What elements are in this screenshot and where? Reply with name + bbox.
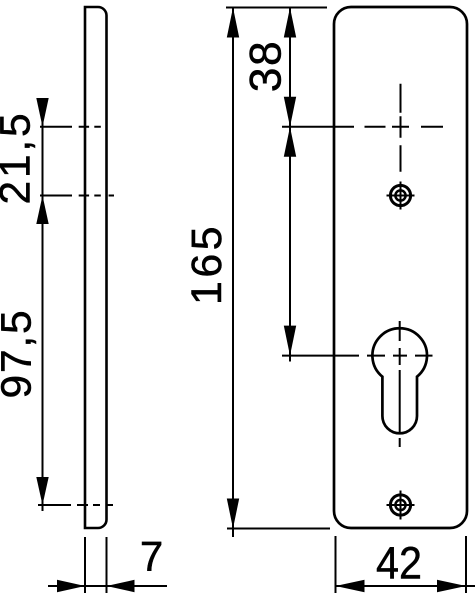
arrow down at cylinder centerline bbox=[284, 326, 296, 356]
witness line top screw bbox=[40, 195, 72, 197]
svg-text:21,5: 21,5 bbox=[0, 111, 40, 205]
witness line bottom screw bbox=[38, 504, 71, 506]
dimension line 38 bbox=[289, 8, 291, 127]
keyhole centerline vertical bbox=[399, 321, 401, 447]
top screw centerline (side view) bbox=[79, 195, 114, 197]
top screw symbol bbox=[387, 182, 415, 210]
arrow up to 97,5 top bbox=[36, 196, 48, 225]
dimension line handle to cylinder bbox=[289, 127, 291, 362]
handle centerline vertical bbox=[400, 84, 402, 172]
arrow down to 38 bottom bbox=[284, 97, 296, 127]
witness line 165 bottom bbox=[227, 528, 330, 530]
keyhole euro profile cutout bbox=[372, 328, 427, 433]
arrow left to 7 right bbox=[107, 580, 135, 592]
svg-text:97,5: 97,5 bbox=[0, 309, 41, 399]
front view plate outline bbox=[334, 7, 467, 528]
keyhole centerline horizontal bbox=[282, 355, 433, 357]
witness line 165 top bbox=[226, 7, 327, 9]
dimension line 7 bbox=[48, 585, 167, 587]
arrow right to 7 left bbox=[57, 580, 85, 592]
witness line top of 21,5 bbox=[40, 126, 72, 128]
dimension line 42 bbox=[336, 585, 475, 587]
svg-text:42: 42 bbox=[376, 538, 422, 589]
arrow up to 38 top bbox=[284, 8, 296, 38]
svg-text:7: 7 bbox=[140, 533, 163, 580]
svg-text:38: 38 bbox=[242, 40, 291, 93]
bottom screw symbol bbox=[387, 491, 415, 520]
arrow down to 21,5 top bbox=[36, 98, 48, 127]
handle centerline (side view) bbox=[79, 126, 101, 128]
side view plate outline bbox=[85, 7, 107, 528]
handle centerline horizontal bbox=[282, 126, 443, 128]
dimension line 21,5 and 97,5 bbox=[42, 98, 44, 511]
arrow left to 42 left bbox=[336, 580, 365, 592]
arrow right to 42 right bbox=[437, 580, 466, 592]
arrow down to 165 bottom bbox=[227, 499, 239, 529]
arrow up at handle centerline bbox=[284, 127, 296, 157]
bottom screw centerline (side view) bbox=[77, 504, 113, 506]
arrow up to 165 top bbox=[227, 8, 239, 38]
extension lines for 7 bbox=[85, 537, 107, 593]
extension lines for 42 bbox=[336, 536, 467, 593]
dimension line 165 bbox=[232, 8, 234, 538]
svg-text:165: 165 bbox=[183, 223, 231, 305]
arrow down to 97,5 bottom bbox=[36, 477, 48, 505]
